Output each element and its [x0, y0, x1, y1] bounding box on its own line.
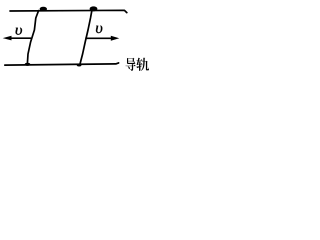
rod 2 (right sliding bar): [80, 11, 92, 64]
arrowhead v1: [3, 36, 12, 41]
label v2: [96, 26, 102, 34]
rod 2 bottom contact dot: [77, 64, 82, 67]
velocity arrow v1 (points left from rod 1): [11, 37, 32, 39]
arrowhead v2: [111, 36, 120, 41]
label 轨 (rail) character: [136, 58, 149, 71]
bottom rail: [5, 63, 119, 65]
rod 1 (left sliding bar): [27, 11, 38, 64]
top rail: [10, 10, 127, 12]
rod 1 top contact dot: [40, 7, 47, 12]
label v1: [16, 28, 22, 35]
rod 1 bottom contact dot: [25, 63, 31, 66]
rod 2 top contact dot: [90, 6, 98, 11]
velocity arrow v2 (points right from rod 2): [85, 37, 111, 39]
label 导 (guide) character: [126, 58, 136, 71]
